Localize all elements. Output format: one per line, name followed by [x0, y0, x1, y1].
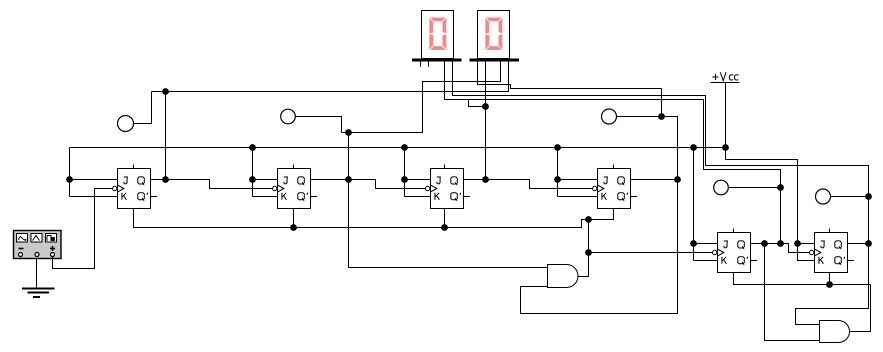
wire AND A1 output [578, 220, 589, 277]
node bus-Vcc junction [722, 144, 729, 151]
JK flip-flop U5 [713, 229, 751, 273]
wire U6 J input [798, 243, 815, 245]
power +Vcc symbol [711, 72, 740, 147]
wire U6 Q' stub [848, 260, 855, 262]
node reset-U4 junction [585, 216, 592, 223]
wire U1 Q' stub [151, 196, 158, 198]
wire U1 K input [70, 196, 118, 198]
node Q4 probe junction [658, 113, 665, 120]
JK flip-flop U6 [810, 229, 848, 273]
wire U5 Q' stub [751, 260, 758, 262]
JK flip-flop U2 [273, 165, 311, 209]
wire U5 J-K tie to Vcc bus [693, 148, 695, 261]
wire U2 J input [253, 179, 278, 181]
wire U2 K input [253, 196, 278, 198]
node U6 J-K junction [794, 240, 801, 247]
node A1 output junction [585, 249, 592, 256]
node bus-U4 junction [554, 144, 561, 151]
wire Q5 to AND A2 input [765, 244, 820, 341]
node probe X5 junction [865, 193, 872, 200]
node U3 J-K junction [401, 176, 408, 183]
wire U4 Q' stub [631, 196, 638, 198]
seven-segment display DS2 (ones digit) [478, 11, 510, 59]
wire U5 J input [694, 243, 718, 245]
wire U6 J-K feed from Vcc node [726, 148, 798, 244]
wire Q5 output to U6 clock [751, 244, 810, 253]
wire reset bus FF5-FF6 [734, 273, 871, 285]
DS1 unconnected pin stubs [420, 62, 422, 67]
wire U3 J input [405, 179, 431, 181]
indicator probe X2 [281, 109, 296, 124]
wire U4 K input [558, 196, 598, 198]
wire Q6 output [848, 243, 869, 245]
wire U2 J-K tie to Vcc bus [252, 148, 254, 197]
wire U3 K input [405, 196, 431, 198]
wire Q3 output to U4 clock [464, 180, 593, 189]
wire Q1 net to DS2 pin d [152, 62, 509, 92]
wire A1 output to U5 clock [589, 252, 713, 254]
node bus-U2 junction [249, 144, 256, 151]
AND gate A1 (ones reset: Q2.Q4) [548, 265, 579, 288]
node U2 clear junction [290, 224, 297, 231]
wire U2 Q' stub [311, 196, 318, 198]
node Q2 output junction [345, 176, 352, 183]
wire Q1 node drop [165, 92, 167, 180]
node Q1-display junction [162, 88, 169, 95]
wire U6 clear pin [829, 273, 831, 285]
node probe X4 junction [777, 184, 784, 191]
wire reset bus FF1-FF4 [134, 209, 614, 228]
wire Q2 net vertical / to AND A1 input [349, 133, 548, 268]
node Q5 output junction [761, 240, 768, 247]
JK flip-flop U1 [113, 165, 151, 209]
wire probe X5 to Q6 net [831, 196, 869, 198]
node Q5-probe junction [777, 240, 784, 247]
node Q3 output junction [482, 176, 489, 183]
wire U1 J-K tie to Vcc bus [69, 148, 71, 197]
indicator probe X3 [602, 109, 617, 124]
wire U4 J input [558, 179, 598, 181]
node Q6 output junction [865, 240, 872, 247]
wire DS2 pin b to Q3 [485, 62, 487, 180]
JK flip-flop U4 [593, 165, 631, 209]
node U5 J-K junction [690, 240, 697, 247]
node U6 clear junction [826, 281, 833, 288]
node Q3 display junction [482, 103, 489, 110]
wire U3 clear pin [444, 209, 446, 228]
wire U6 K input [798, 244, 815, 261]
node bus-U3 junction [401, 144, 408, 151]
wire U4 J-K tie to Vcc bus [557, 148, 559, 197]
node U3 clear junction [441, 224, 448, 231]
indicator probe X5 [816, 189, 831, 204]
wire DS2 pin c to Q2 net [342, 62, 501, 133]
wire Q4 net vertical to AND A1 input [521, 117, 678, 314]
wire AND A2 output to reset [850, 285, 871, 332]
wire U5 K input [694, 260, 718, 262]
indicator probe X4 [714, 180, 729, 195]
seven-segment display DS1 (tens digit) [422, 11, 454, 59]
wire DS2 pin a to Q4 net [478, 62, 662, 117]
wire Q3 node side branch [469, 100, 486, 107]
display DS2 base bar [470, 59, 520, 62]
wire Q4 output [631, 179, 678, 181]
wire U3 Q' stub [464, 196, 471, 198]
function generator XFG1 [14, 231, 62, 259]
node U2 J-K junction [249, 176, 256, 183]
wire Q1 output to U2 clock [151, 180, 273, 189]
wire clock from XFG1 + terminal to U1 clock [53, 189, 113, 269]
wire probe X3 to Q4 net [617, 116, 662, 118]
wire Vcc bus (J-K high rail) [70, 147, 726, 149]
display DS1 base bar [412, 59, 462, 62]
wire DS1 pin d to Q6 net [453, 62, 869, 325]
AND gate A2 (tens reset: Q5.Q6) [820, 321, 850, 343]
wire U3 J-K tie to Vcc bus [404, 148, 406, 197]
wire probe X4 to Q5 net [729, 187, 781, 189]
node bus-U5 junction [690, 144, 697, 151]
wire U1 J input [70, 179, 118, 181]
wire U2 clear pin [293, 209, 295, 228]
JK flip-flop U3 [426, 165, 464, 209]
node U1 J-K junction [66, 176, 73, 183]
wire probe X1 to node [134, 92, 152, 124]
node Q1 output junction [162, 176, 169, 183]
node U4 J-K junction [554, 176, 561, 183]
wire Q2 output to U3 clock [311, 180, 426, 189]
node Q4 output junction [674, 176, 681, 183]
node Q2 net corner junction [345, 129, 352, 136]
indicator probe X1 [118, 116, 134, 132]
wire DS1 pin c to Q5 net [445, 62, 781, 244]
ground symbol [22, 259, 55, 298]
wire probe X2 to Q2 net [296, 117, 342, 133]
